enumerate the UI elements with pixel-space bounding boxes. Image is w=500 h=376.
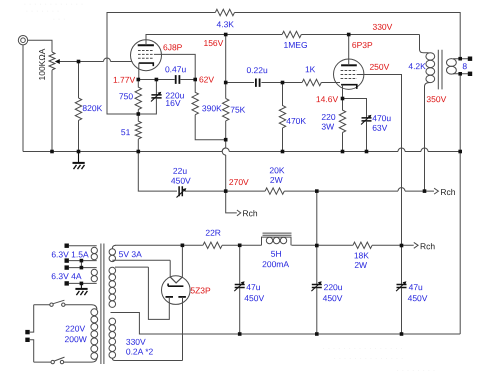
svg-text:· · · · · · · ·: · · · · · · · · [396,365,435,375]
6J8P grid dashes [138,51,154,59]
junction plate wire / x225 column [224,33,228,37]
svg-text:4.2K: 4.2K [408,61,426,71]
resistor R 22R [203,242,222,248]
junction 470K top / 6P3P grid wire [281,81,285,85]
svg-text:3W: 3W [321,122,334,132]
svg-text:1K: 1K [305,64,316,74]
arrow Rch tap 1 [434,188,438,194]
ground bus (main upper ground) [23,151,460,153]
wire B+ 270V row [138,152,434,192]
svg-text:2W: 2W [354,260,367,270]
resistor R 18K 2W [353,242,372,248]
T1 winding 330V bottom half [109,318,116,325]
svg-text:Rch: Rch [243,208,258,218]
junction 47u-1 top / rail [238,244,242,248]
svg-text:2W: 2W [270,175,283,185]
6J8P plate bar [138,44,154,46]
T1 primary 220V winding top lead + switch S1 [34,305,97,310]
wire link between 6.3V windings [80,261,82,268]
junction 390K bottom / 75K bottom [224,138,228,142]
capacitor C 47u 450V (right) [401,246,403,285]
svg-text:6P3P: 6P3P [352,40,373,50]
capacitor C 220u 16V electrolytic [155,80,157,95]
svg-text:470u: 470u [372,113,391,123]
output transformer T2 primary lead [420,35,429,53]
svg-text:220u: 220u [324,282,343,292]
T1 winding 6.3V 4A [69,267,97,269]
junction 470K bottom / ground bus [281,150,285,154]
mains plug prong top [25,330,29,334]
resistor R 75K [223,99,229,121]
junction secondary bottom / ground [458,72,462,76]
svg-text:8: 8 [462,61,467,71]
tube U2 6P3P envelope [334,59,364,89]
capacitor C 470u 63V electrolytic [362,118,372,121]
svg-text:51: 51 [121,127,131,137]
junction ground bus / secondary return [458,150,462,154]
T1 primary winding loops [91,309,98,316]
svg-text:6.3V 1.5A: 6.3V 1.5A [51,249,89,259]
resistor R 390K [192,75,226,140]
speaker terminal top [468,57,472,61]
ground symbol (filament winding) [75,283,87,295]
svg-text:470K: 470K [286,116,306,126]
junction rectifier filament / rail [181,244,185,248]
wire hop x225 over bus handled in bus; vertical bump [222,148,226,155]
capacitor C 220u 450V [316,246,318,285]
wire hop: wiper wire over feedback line [104,58,111,62]
5Z3P filament leads [170,245,182,277]
junction 0.22u input [224,81,228,85]
junction 220-3W bottom / ground bus [341,150,345,154]
choke L 5H 200mA [262,237,292,245]
terminal 6.3V4A bottom [65,281,69,285]
svg-text:0.22u: 0.22u [246,65,268,75]
wire right vertical (secondary bottom to ground) [459,74,461,334]
capacitor C 47u 450V (first) [239,245,241,284]
5Z3P filament V [170,277,182,283]
junction filament winding ground [80,282,84,286]
output transformer T2 primary winding [426,53,435,60]
resistor R 1MEG [282,31,419,37]
svg-text:· · · · · · · · · · · · · · ·: · · · · · · · · · · · · · · · · [322,343,403,353]
svg-text:1.77V: 1.77V [113,75,136,85]
svg-text:47u: 47u [409,282,423,292]
capacitor C 22u 450V electrolytic [179,186,182,196]
junction 220u bottom / ground return [315,332,319,336]
junction 47u-1 bottom / ground return [238,332,242,336]
wire 330V top winding to left plate [148,267,169,319]
6J8P plate lead + 330V run wire [146,35,282,46]
svg-text:390K: 390K [202,103,222,113]
node 270V [224,189,228,193]
svg-text:450V: 450V [244,293,264,303]
node 350V OPT primary return [423,189,427,193]
wire riser choke node to B+ row [316,191,318,245]
wire hop: B+ row over 250V line [398,188,405,192]
svg-text:0.47u: 0.47u [165,64,187,74]
svg-text:22u: 22u [173,166,187,176]
resistor R 470K [279,83,285,152]
wire top feedback to secondary top [235,13,461,59]
pot wiper arrow [60,61,104,63]
svg-text:200mA: 200mA [262,259,289,269]
5Z3P plate right [178,296,186,298]
wire 330V bottom winding to right plate [182,297,184,361]
svg-text:4.3K: 4.3K [216,19,234,29]
capacitor C 0.22u [256,79,260,87]
T1 winding 5V 3A [112,245,116,249]
terminal 6.3V1.5A top [65,244,69,248]
6J8P cathode [139,63,154,66]
junction 6P3P plate / 330V wire [347,33,351,37]
svg-text:220V: 220V [65,324,85,334]
wire hop: bus over 350V line [421,148,428,151]
arrow Rch tap 2 [414,242,418,248]
potentiometer 100KOhmA [49,52,55,70]
wire Rch tap 3 (270V node to right channel) [226,191,237,213]
resistor R 4.3K (feedback) [215,9,234,15]
resistor R 220 3W [339,99,345,152]
power transformer T1 core [101,244,104,365]
junction 750 bottom / feedback [137,112,141,116]
svg-text:18K: 18K [354,250,369,260]
T1 winding 330V top half [115,266,148,268]
svg-text:22R: 22R [205,228,221,238]
svg-text:63V: 63V [372,123,387,133]
6P3P plate bar [341,64,357,66]
svg-text:5H: 5H [271,249,282,259]
OPT secondary leads [453,59,468,74]
svg-text:250V: 250V [369,62,389,72]
svg-text:14.6V: 14.6V [316,94,339,104]
svg-text:820K: 820K [82,103,102,113]
svg-text:330V: 330V [372,22,392,32]
terminal 6.3V1.5A bottom [65,258,69,262]
svg-text:350V: 350V [426,94,446,104]
svg-text:100KΩA: 100KΩA [37,48,47,80]
svg-text:Rch: Rch [440,187,455,197]
svg-text:47u: 47u [246,282,260,292]
junction 820K bottom / ground [77,150,81,154]
svg-text:220: 220 [321,112,335,122]
wire pot bottom to bus [51,70,53,151]
resistor R 750 [135,80,141,115]
svg-text:· · ·: · · · [52,14,65,24]
wire bottom ground return [111,313,461,335]
faint watermark bottom-right [322,343,435,375]
6P3P g2 exit wire (250V line) [357,75,402,246]
resistor R 820K [75,62,81,152]
svg-text:450V: 450V [171,176,191,186]
wire rectifier rail [116,244,414,246]
wire hop: x225 line over bus [222,148,229,151]
svg-text:330V: 330V [126,337,146,347]
wire hop: bus over 250V line [398,148,405,151]
faint watermark top-left [23,0,83,24]
junction 470u bottom / ground bus [365,150,369,154]
6P3P grid dashes [341,71,357,79]
wire 6P3P cathode node [343,99,367,118]
svg-text:750: 750 [119,91,133,101]
svg-text:20K: 20K [269,165,284,175]
resistor R 51 [135,114,141,152]
T1 primary bottom lead + switch S2 [34,358,97,363]
junction B+ wire / choke riser [315,189,319,193]
mains plug prong bottom [25,338,29,342]
wire cathode node row (0.47u run) [138,79,195,81]
wire jack ground down [22,45,24,152]
svg-text:200W: 200W [65,334,87,344]
resistor R 1K [302,79,340,85]
junction 6.3V windings link bottom [80,266,84,270]
junction secondary top / feedback [458,57,462,61]
wire plug to primary [30,305,34,362]
wire feedback loop: cathode node up-left-top to 4.3K [107,13,215,115]
5Z3P plate left [166,296,174,298]
capacitor C 0.47u [176,75,180,84]
tube U1 6J8P envelope [131,40,162,71]
junction 220u top [155,78,159,82]
junction pot bottom / ground bus [50,150,54,154]
5Z3P middle bar [168,284,183,287]
junction pot wiper / 820K top [77,60,81,64]
6J8P g2 exit wire to 62V node [154,54,195,75]
svg-text:6J8P: 6J8P [163,42,183,52]
junction choke output / 220u top [315,244,319,248]
speaker terminal bottom [468,72,472,76]
node 1.77V cathode [137,78,141,82]
OPT core [438,50,442,90]
svg-text:5Z3P: 5Z3P [190,285,211,295]
OPT secondary winding [447,59,457,67]
svg-text:0.2A *2: 0.2A *2 [126,346,154,356]
node 62V [193,78,197,82]
T1 winding 6.3V 1.5A [69,245,97,247]
svg-text:5V 3A: 5V 3A [119,249,142,259]
svg-text:62V: 62V [199,74,214,84]
OPT primary bottom lead (350V line) [425,83,431,192]
svg-text:270V: 270V [229,177,249,187]
6P3P plate lead [348,35,350,66]
svg-text:156V: 156V [203,38,223,48]
T1 330V center tap lead [111,312,140,314]
tube U3 5Z3P envelope [162,276,191,305]
svg-text:16V: 16V [165,98,180,108]
6P3P cathode [341,85,357,89]
svg-text:75K: 75K [230,105,245,115]
node 250V screen supply [400,244,404,248]
svg-text:1MEG: 1MEG [283,40,307,50]
svg-text:450V: 450V [323,293,343,303]
junction 47u-2 bottom / ground return [400,332,404,336]
terminal 6.3V4A top [65,265,69,269]
svg-text:· · · · · · · · · · · · · ·: · · · · · · · · · · · · · · [333,353,403,363]
junction 51 bottom / ground bus [137,150,141,154]
wire 0.22u run [226,82,302,84]
junction 6.3V windings link top [80,259,84,263]
resistor R 20K 2W [265,188,284,194]
node 14.6V cathode 6P3P [341,97,345,101]
wire x225 node column [225,35,227,192]
wire wiper to 6J8P grid [111,61,133,63]
ground symbol (main bus) [73,152,85,170]
svg-text:450V: 450V [408,293,428,303]
input jack J1 [18,36,27,45]
svg-text:6.3V 4A: 6.3V 4A [51,271,82,281]
wire jack to pot top [28,40,52,52]
svg-text:Rch: Rch [420,241,435,251]
